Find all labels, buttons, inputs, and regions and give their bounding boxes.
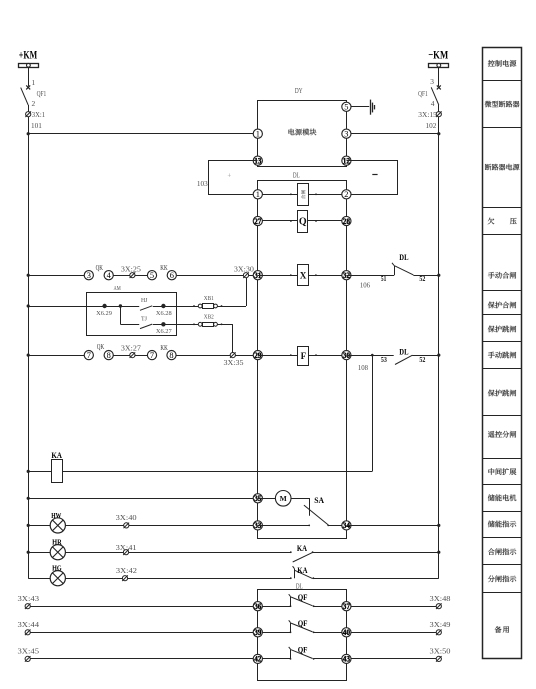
- wire 102 / right bus: [438, 117, 440, 578]
- contact QF label: [298, 593, 308, 602]
- contact DL 51-52 blade: [394, 266, 413, 275]
- wire: [258, 194, 298, 196]
- wire: [28, 471, 52, 473]
- terminal 3X:27 label: [121, 344, 141, 353]
- contact QF blade: [290, 623, 315, 633]
- switch KK contact 7: [147, 351, 156, 360]
- relay coil KA: [52, 460, 63, 483]
- contact DL 53-52 blade: [395, 355, 412, 364]
- wire: [28, 355, 84, 357]
- svg-text:DL: DL: [399, 348, 409, 357]
- pin 53 label: [381, 356, 387, 364]
- lamp HR label: [52, 538, 62, 547]
- svg-text:TJ: TJ: [141, 315, 147, 322]
- svg-text:X6.28: X6.28: [156, 310, 172, 317]
- wire end dot: [290, 274, 292, 276]
- wire: [153, 305, 199, 307]
- pin 52 label: [419, 356, 425, 364]
- contact KA label: [297, 566, 307, 575]
- contact DL 51-52 riser: [392, 263, 395, 275]
- svg-text:3X:27: 3X:27: [121, 344, 141, 353]
- terminal 3X:40 label: [116, 513, 137, 522]
- junction: [437, 524, 440, 527]
- terminal 3X:48 label: [430, 594, 451, 603]
- wire: [314, 658, 439, 660]
- terminal 3X:44: [25, 630, 31, 636]
- wire: [28, 133, 258, 135]
- legend row 15: 分闸指示: [488, 575, 516, 582]
- svg-text:−KM: −KM: [428, 50, 448, 62]
- wire: [120, 324, 139, 326]
- breaker QF1 pole 3-4 fixed contact x: [437, 85, 441, 89]
- wire: [177, 355, 254, 357]
- svg-text:X6.27: X6.27: [156, 328, 172, 335]
- svg-text:37: 37: [343, 602, 350, 611]
- svg-text:DL: DL: [293, 171, 300, 180]
- terminal 3X:25: [130, 272, 136, 278]
- breaker QF1 label: [418, 89, 428, 98]
- switch QK label: [97, 343, 104, 351]
- anti-tripping module AM box: [87, 293, 177, 336]
- tripping coil F: [298, 347, 309, 366]
- wire: [30, 606, 290, 608]
- minus polarity mark: [372, 174, 377, 176]
- svg-text:101: 101: [31, 121, 42, 130]
- legend row 13: 储能指示: [488, 521, 516, 528]
- contact QF riser: [289, 594, 291, 606]
- lamp HW label: [51, 511, 61, 520]
- wire: [438, 67, 440, 86]
- terminal X6.27 dot: [161, 322, 165, 326]
- terminal 3X:1 label: [32, 110, 45, 119]
- contact DL label: [399, 348, 409, 357]
- svg-text:53: 53: [381, 356, 387, 364]
- junction: [437, 551, 440, 554]
- terminal 3X:48: [436, 603, 442, 609]
- svg-text:Q: Q: [299, 217, 307, 228]
- contact KA blade: [290, 551, 314, 562]
- switch KK label: [160, 264, 167, 272]
- svg-text:3X:40: 3X:40: [116, 513, 137, 522]
- legend row 9: 保护跳闸: [488, 390, 516, 397]
- terminal 34: [342, 521, 351, 530]
- power module name text: [288, 129, 316, 136]
- wire end dot: [315, 220, 317, 222]
- terminal 33: [253, 521, 262, 530]
- contact QF blade: [290, 597, 315, 607]
- wire 13 to DL terminal 1 net 103: [209, 161, 258, 195]
- junction: [27, 132, 30, 135]
- wire: [346, 355, 393, 357]
- switch SA blade: [304, 505, 328, 525]
- svg-text:27: 27: [254, 217, 261, 226]
- power module DY label: [295, 86, 303, 95]
- contact KA label: [297, 544, 307, 553]
- svg-text:XB1: XB1: [204, 295, 214, 302]
- svg-text:M: M: [280, 494, 287, 503]
- wire: [346, 525, 438, 527]
- svg-text:108: 108: [358, 363, 368, 372]
- terminal 27: [253, 216, 262, 225]
- module AM label: [114, 285, 121, 292]
- terminal 35: [253, 494, 262, 503]
- wire: [258, 498, 276, 500]
- svg-text:5: 5: [150, 271, 154, 280]
- svg-text:1: 1: [32, 78, 36, 87]
- wire: [113, 355, 147, 357]
- wire: [291, 498, 310, 500]
- svg-text:2: 2: [344, 190, 348, 199]
- breaker QF1 pole 3-4 blade: [431, 87, 439, 105]
- wire: [65, 578, 290, 580]
- terminal 3X:43 label: [18, 594, 40, 603]
- junction: [437, 354, 440, 357]
- terminal 3X:42: [122, 575, 128, 581]
- terminal 3X:49: [436, 630, 442, 636]
- svg-text:43: 43: [343, 655, 350, 664]
- svg-text:3X:1: 3X:1: [32, 110, 45, 119]
- contact QF riser: [289, 647, 291, 659]
- wire: [413, 275, 438, 277]
- junction: [119, 304, 122, 307]
- svg-text:3X:35: 3X:35: [224, 358, 244, 367]
- terminal 3X:1: [25, 111, 31, 117]
- terminal 3X:30 label: [234, 264, 254, 273]
- breaker DL lower label: [296, 583, 303, 591]
- lamp HW: [50, 518, 65, 533]
- wire end dot: [315, 354, 317, 356]
- svg-text:KA: KA: [51, 451, 62, 460]
- ground: [371, 100, 375, 115]
- wire TJ branch: [120, 306, 122, 324]
- wire: [30, 632, 290, 634]
- terminal 3X:42 label: [116, 566, 137, 575]
- svg-text:HJ: HJ: [141, 297, 148, 304]
- busbar symbol +KM: [19, 63, 39, 67]
- wire: [28, 525, 50, 527]
- svg-text:1: 1: [256, 190, 260, 199]
- contact QF riser: [289, 620, 291, 632]
- wire riser net 108: [371, 354, 374, 472]
- wire: [28, 552, 50, 554]
- wire riser to 3X:30: [246, 278, 248, 306]
- terminal 5: [342, 102, 351, 111]
- svg-text:3: 3: [344, 130, 348, 139]
- svg-text:X: X: [300, 271, 307, 281]
- terminal X6.28 label: [156, 310, 172, 317]
- terminal 2 DL: [342, 190, 351, 199]
- terminal 3X:40: [124, 523, 130, 529]
- lamp HG label: [52, 564, 62, 573]
- svg-text:QK: QK: [97, 343, 104, 351]
- relay contact TJ label: [141, 315, 147, 322]
- svg-text:QK: QK: [96, 264, 103, 272]
- power module DY box: [258, 101, 347, 167]
- terminal 3X:45 label: [18, 647, 40, 656]
- net 108 label: [358, 363, 368, 372]
- svg-text:3X:43: 3X:43: [18, 594, 40, 603]
- svg-text:8: 8: [107, 351, 111, 360]
- wire: [258, 525, 310, 527]
- legend row 3: 断路器电源: [485, 164, 519, 171]
- terminal 3X:50: [436, 656, 442, 662]
- closing coil HQ: [298, 184, 309, 206]
- svg-text:5: 5: [344, 103, 348, 112]
- svg-text:+KM: +KM: [19, 50, 37, 62]
- svg-text:103: 103: [197, 179, 208, 188]
- terminal 36: [253, 602, 262, 611]
- terminal X6.29 dot: [102, 304, 106, 308]
- svg-text:X6.29: X6.29: [96, 310, 112, 317]
- svg-text:6: 6: [170, 271, 174, 280]
- terminal 3X:50 label: [430, 647, 451, 656]
- wire 12 to DL terminal 2: [347, 161, 398, 195]
- terminal 30: [342, 351, 351, 360]
- pin 51 label: [381, 275, 387, 283]
- junction: [27, 551, 30, 554]
- svg-text:102: 102: [426, 121, 437, 130]
- terminal 3X:35 label: [224, 358, 244, 367]
- switch QK contact 8: [104, 351, 113, 360]
- terminal X6.28 dot: [161, 304, 165, 308]
- wire riser to 3X:35: [232, 324, 234, 355]
- relay contact TJ blade: [140, 324, 152, 329]
- terminal 32: [342, 271, 351, 280]
- switch SA label: [314, 496, 324, 505]
- terminal 3X:41: [123, 549, 129, 555]
- relay contact HJ label: [141, 297, 148, 304]
- relay coil KA label: [51, 451, 62, 460]
- terminal 37: [342, 602, 351, 611]
- svg-text:40: 40: [343, 628, 350, 637]
- wire end dot: [315, 193, 317, 195]
- legend row 7: 保护跳闸: [488, 326, 516, 333]
- terminal 3X:25 label: [121, 264, 141, 273]
- circuit breaker DL box: [258, 181, 347, 539]
- legend row 4: 欠压: [488, 218, 517, 225]
- wire 101 / left bus: [28, 117, 30, 578]
- wire: [309, 355, 346, 357]
- terminal 1 DL: [253, 190, 262, 199]
- svg-text:51: 51: [381, 275, 387, 283]
- contact QF label: [298, 619, 308, 628]
- pin 3: [430, 77, 434, 86]
- svg-text:3: 3: [87, 271, 91, 280]
- terminal 3X:44 label: [18, 620, 40, 629]
- contact KA riser: [293, 566, 295, 578]
- junction: [27, 304, 30, 307]
- junction: [27, 497, 30, 500]
- svg-text:SA: SA: [314, 496, 324, 505]
- wire: [314, 632, 439, 634]
- terminal X6.29 label: [96, 310, 112, 317]
- switch QK contact 4: [104, 271, 113, 280]
- wire: [346, 275, 394, 277]
- pin 4: [431, 99, 435, 108]
- svg-text:2: 2: [32, 99, 36, 108]
- junction: [27, 354, 30, 357]
- legend row 11: 中间扩展: [488, 468, 516, 475]
- terminal X6.27 label: [156, 328, 172, 335]
- svg-text:7: 7: [87, 351, 91, 360]
- wire: [177, 275, 253, 277]
- wire: [309, 275, 347, 277]
- svg-text:3: 3: [430, 77, 434, 86]
- net 103 label: [197, 179, 208, 188]
- legend row 6: 保护合闸: [488, 302, 516, 309]
- link XB1: [198, 304, 217, 309]
- contact QF label: [298, 646, 308, 655]
- terminal 31: [253, 271, 262, 280]
- junction: [437, 274, 440, 277]
- legend row 12: 储能电机: [488, 494, 516, 501]
- svg-text:F: F: [301, 351, 307, 361]
- wire: [313, 552, 439, 554]
- wire: [28, 578, 50, 580]
- junction: [437, 132, 440, 135]
- junction: [27, 470, 30, 473]
- terminal 29: [253, 351, 262, 360]
- switch KK contact 6: [167, 271, 176, 280]
- svg-text:28: 28: [343, 217, 350, 226]
- wire: [28, 105, 30, 112]
- svg-text:52: 52: [419, 356, 425, 364]
- svg-text:3X:45: 3X:45: [18, 647, 40, 656]
- legend row 10: 遥控分闸: [488, 431, 516, 438]
- svg-text:DY: DY: [295, 86, 303, 95]
- legend row 8: 手动跳闸: [488, 352, 516, 359]
- wire: [258, 275, 298, 277]
- wire: [28, 67, 30, 86]
- terminal 39: [253, 628, 262, 637]
- svg-text:1: 1: [256, 130, 260, 139]
- svg-text:8: 8: [169, 351, 173, 360]
- plus polarity mark: [227, 173, 231, 180]
- junction: [27, 274, 30, 277]
- svg-text:3X:44: 3X:44: [18, 620, 40, 629]
- lamp HG: [50, 571, 65, 586]
- svg-text:39: 39: [254, 628, 261, 637]
- switch KK contact 5: [147, 271, 156, 280]
- legend row 1: 控制电源: [488, 60, 516, 67]
- wire end dot: [290, 193, 292, 195]
- contact KA blade: [290, 570, 314, 579]
- svg-text:3X:25: 3X:25: [121, 264, 141, 273]
- switch QK contact 7: [84, 351, 93, 360]
- svg-text:AM: AM: [114, 285, 121, 292]
- energy storage coil Q: [298, 211, 308, 233]
- link XB1 label: [204, 295, 214, 302]
- busbar symbol -KM: [429, 63, 449, 67]
- terminal 40: [342, 628, 351, 637]
- switch KK label: [160, 344, 167, 352]
- breaker QF1 pole 1-2 blade: [21, 88, 29, 105]
- storage motor M: [275, 491, 291, 507]
- terminal 3X:15: [436, 111, 442, 117]
- wire: [438, 105, 440, 112]
- svg-text:3X:48: 3X:48: [430, 594, 451, 603]
- link XB2 label: [204, 314, 214, 321]
- pin 52 label: [419, 275, 425, 283]
- terminal 28: [342, 216, 351, 225]
- wire: [313, 578, 438, 580]
- legend row 5: 手动合闸: [488, 272, 516, 279]
- svg-text:7: 7: [150, 351, 154, 360]
- closing relay coil X: [298, 265, 309, 286]
- terminal 3X:49 label: [430, 620, 451, 629]
- svg-text:XB2: XB2: [204, 314, 214, 321]
- svg-text:QF1: QF1: [37, 89, 47, 98]
- node +KM positive control bus label: [19, 50, 37, 62]
- terminal 12: [342, 156, 351, 165]
- wire: [28, 498, 258, 500]
- legend table frame: [483, 48, 522, 659]
- breaker DL lower box: [258, 590, 347, 681]
- wire: [314, 606, 439, 608]
- svg-text:3X:30: 3X:30: [234, 264, 254, 273]
- terminal 1: [253, 129, 262, 138]
- switch QK label: [96, 264, 103, 272]
- link XB2: [198, 322, 217, 326]
- breaker QF1 pole 1-2 fixed contact x: [26, 85, 30, 89]
- net 101 label: [31, 121, 42, 130]
- wire: [65, 525, 257, 527]
- wire: [217, 305, 246, 307]
- terminal 3X:27: [130, 352, 136, 358]
- switch SA stem: [309, 498, 311, 515]
- svg-text:36: 36: [254, 602, 261, 611]
- wire end dot: [315, 274, 317, 276]
- wire: [28, 306, 139, 308]
- svg-text:KA: KA: [297, 544, 307, 553]
- terminal 3X:35: [230, 352, 236, 358]
- pin 2: [32, 99, 36, 108]
- wire: [258, 220, 298, 222]
- svg-text:QF1: QF1: [418, 89, 428, 98]
- svg-text:3X:50: 3X:50: [430, 647, 451, 656]
- svg-text:DL: DL: [296, 583, 303, 591]
- svg-text:3X:42: 3X:42: [116, 566, 137, 575]
- switch QK contact 3: [84, 271, 93, 280]
- terminal 3X:41 label: [116, 543, 137, 552]
- svg-text:52: 52: [419, 275, 425, 283]
- terminal 43: [342, 654, 351, 663]
- svg-text:KK: KK: [160, 264, 167, 272]
- svg-text:106: 106: [360, 281, 370, 290]
- breaker DL label: [293, 171, 300, 180]
- svg-text:3X:41: 3X:41: [116, 543, 137, 552]
- wire: [308, 194, 346, 196]
- wire: [258, 355, 298, 357]
- wire end dot: [290, 354, 292, 356]
- svg-text:4: 4: [431, 99, 435, 108]
- net 102 label: [426, 121, 437, 130]
- terminal 3X:43: [25, 603, 31, 609]
- wire: [65, 552, 290, 554]
- node -KM negative control bus label: [428, 50, 448, 62]
- net 106 label: [360, 281, 370, 290]
- wire: [327, 525, 346, 527]
- legend row 2: 微型断路器: [485, 101, 520, 107]
- terminal 3X:15 label: [418, 110, 437, 119]
- svg-text:DL: DL: [399, 253, 409, 262]
- lamp HR: [50, 545, 65, 560]
- wire end dot: [290, 220, 292, 222]
- switch KK contact 8: [167, 351, 176, 360]
- wire: [412, 355, 439, 357]
- wire: [28, 275, 84, 277]
- wire: [346, 106, 369, 108]
